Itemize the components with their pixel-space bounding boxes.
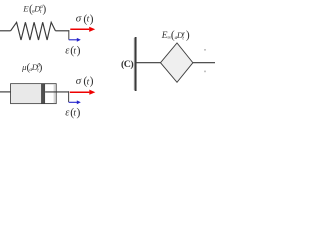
label epsilon(t) top (65, 44, 80, 57)
stress arrow sigma (dashpot) (70, 90, 96, 95)
stray dot lower (204, 71, 206, 73)
label Ea(aDt^g) (161, 30, 190, 42)
wire: junction drop (dashpot) (68, 91, 70, 102)
wire: springpot to right edge (193, 62, 215, 64)
wire: spring right lead (55, 30, 69, 32)
wire: spring left lead (0, 30, 11, 32)
stray dot upper (204, 49, 206, 51)
svg-text:): ) (77, 44, 81, 57)
spring E (11, 22, 56, 40)
svg-text:): ) (77, 106, 81, 119)
wire: junction drop (spring) (68, 30, 70, 40)
wire: piston rod (45, 91, 69, 93)
wire: dashpot left lead (0, 91, 11, 93)
dashpot mu: fluid chamber (11, 84, 41, 103)
svg-text:(C): (C) (121, 59, 133, 70)
dashpot mu: right wall shading (54, 84, 56, 103)
strain arrow epsilon (dashpot) (69, 100, 81, 104)
wire: wall to springpot (136, 62, 161, 64)
svg-text:): ) (90, 75, 94, 88)
svg-text:): ) (43, 3, 47, 15)
wall fixed support (133, 38, 135, 90)
svg-text:σ: σ (76, 12, 82, 24)
label mu(aDt^b) (21, 62, 43, 74)
label sigma(t) top (76, 12, 94, 25)
label E(aDt^a) (22, 3, 46, 15)
label epsilon(t) bottom (65, 106, 80, 119)
stress arrow sigma (spring) (70, 27, 95, 32)
strain arrow epsilon (spring) (69, 38, 81, 42)
label sigma(t) bottom (76, 75, 94, 88)
svg-text:σ: σ (76, 75, 82, 87)
springpot element (diamond) (161, 43, 193, 82)
svg-text:): ) (186, 30, 190, 42)
svg-text:): ) (90, 12, 94, 25)
svg-text:): ) (39, 62, 43, 74)
dashpot mu: piston (41, 84, 44, 104)
dashpot mu: cylinder (11, 84, 57, 104)
